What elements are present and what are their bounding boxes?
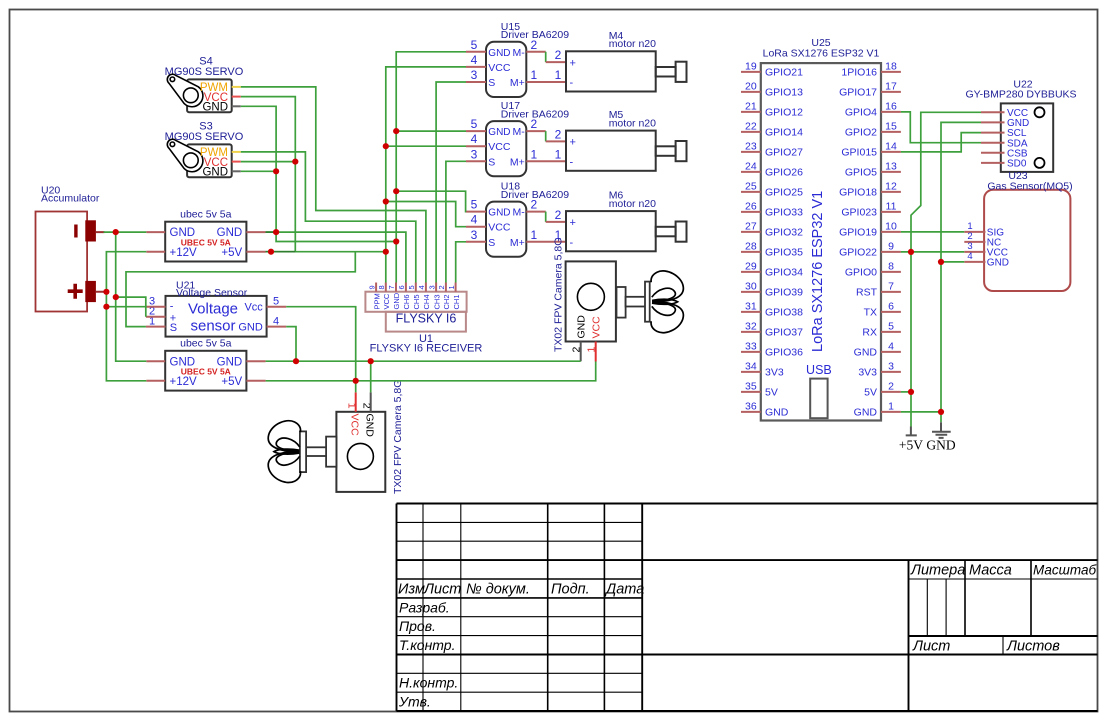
svg-text:VCC: VCC <box>488 222 511 234</box>
svg-text:3V3: 3V3 <box>765 367 784 379</box>
svg-text:GPIO25: GPIO25 <box>765 187 803 199</box>
svg-text:-: - <box>570 157 574 169</box>
svg-text:GND: GND <box>488 48 510 59</box>
svg-text:3V3: 3V3 <box>858 367 877 379</box>
svg-text:Voltage: Voltage <box>188 301 238 318</box>
wire pin9 to U23 VCC <box>901 251 964 253</box>
wire U15 S to CH3 <box>436 82 466 283</box>
junction +12V vertical / vsensor minus wire <box>103 304 109 310</box>
junction acc-minus / GND vertical <box>113 229 119 235</box>
antenna right <box>617 287 626 318</box>
svg-text:-: - <box>170 301 174 313</box>
servo S4 <box>165 55 244 113</box>
junction GND vertical / U23 GND <box>938 259 944 265</box>
wire U17 S to CH2 <box>446 161 466 282</box>
svg-text:3: 3 <box>471 68 478 82</box>
svg-text:33: 33 <box>745 341 757 353</box>
svg-text:1: 1 <box>555 68 562 82</box>
svg-text:M-: M- <box>513 47 526 59</box>
svg-text:8: 8 <box>888 261 894 273</box>
svg-text:GND: GND <box>488 208 510 219</box>
svg-text:GPIO39: GPIO39 <box>765 287 803 299</box>
svg-text:LoRa SX1276 ESP32 V1: LoRa SX1276 ESP32 V1 <box>810 191 826 352</box>
svg-text:Лист: Лист <box>423 581 461 597</box>
svg-text:6: 6 <box>397 285 406 289</box>
svg-text:12: 12 <box>885 181 897 193</box>
junction GND rail / vsensor GND <box>293 358 299 364</box>
svg-text:22: 22 <box>745 121 757 133</box>
receiver U1 FLYSKY I6 <box>365 283 482 355</box>
svg-text:4: 4 <box>967 251 972 262</box>
svg-text:5: 5 <box>407 285 416 289</box>
svg-text:3: 3 <box>888 361 894 373</box>
U25 pins <box>741 72 901 412</box>
svg-text:9: 9 <box>888 241 894 253</box>
svg-text:5: 5 <box>888 321 894 333</box>
receiver pin numbers <box>367 285 456 289</box>
svg-text:Литера: Литера <box>910 563 965 579</box>
svg-text:4: 4 <box>888 341 894 353</box>
junction +5V vertical / 5V pin2 <box>908 389 914 395</box>
wire U17 VCC <box>386 145 466 147</box>
svg-text:1: 1 <box>530 68 537 82</box>
svg-text:+12V: +12V <box>170 376 198 388</box>
wire vsensor minus <box>106 306 145 308</box>
svg-text:13: 13 <box>885 161 897 173</box>
junction servo GND vertical / ubec1 GND line <box>273 229 279 235</box>
svg-text:Масса: Масса <box>969 563 1012 579</box>
wire +5V vertical <box>911 112 981 426</box>
svg-text:GND: GND <box>854 407 878 419</box>
svg-text:CH5: CH5 <box>412 294 421 309</box>
svg-text:4: 4 <box>417 285 426 289</box>
wire +12V: ubec1 to acc to ubec2 <box>106 252 146 381</box>
svg-text:TX02 FPV Camera 5,8G: TX02 FPV Camera 5,8G <box>392 380 404 494</box>
svg-text:Утв.: Утв. <box>398 694 431 710</box>
wire U18 GND jog <box>396 191 466 211</box>
svg-text:CH6: CH6 <box>402 294 411 309</box>
TITLE BLOCK <box>397 504 1098 712</box>
svg-text:2: 2 <box>888 381 894 393</box>
svg-text:LoRa SX1276 ESP32 V1: LoRa SX1276 ESP32 V1 <box>763 48 880 60</box>
svg-text:3: 3 <box>471 147 478 161</box>
wire GND vertical acc to ubec2 <box>116 232 147 361</box>
motor M4 <box>566 30 687 92</box>
svg-text:3: 3 <box>427 285 436 289</box>
svg-text:motor n20: motor n20 <box>609 38 656 50</box>
svg-text:29: 29 <box>745 261 757 273</box>
wire S3 VCC <box>241 161 295 163</box>
svg-text:9: 9 <box>367 285 376 289</box>
svg-text:GND: GND <box>392 292 401 309</box>
svg-text:S: S <box>488 156 495 168</box>
servo S3 <box>165 120 244 178</box>
svg-text:sensor: sensor <box>190 318 235 335</box>
svg-text:GPIO21: GPIO21 <box>765 67 803 79</box>
svg-text:1: 1 <box>447 285 456 289</box>
svg-text:Листов: Листов <box>1006 638 1060 654</box>
svg-text:CH1: CH1 <box>452 294 461 309</box>
junction +5V vertical / GPIO22 wire <box>908 249 914 255</box>
svg-text:S: S <box>488 77 495 89</box>
svg-text:GPIO37: GPIO37 <box>765 327 803 339</box>
svg-text:17: 17 <box>885 81 897 93</box>
svg-text:VCC: VCC <box>488 62 511 74</box>
svg-text:GPIO38: GPIO38 <box>765 307 803 319</box>
svg-text:+: + <box>570 137 576 149</box>
U22 GY-BMP280 <box>965 78 1076 172</box>
svg-text:RX: RX <box>862 327 877 339</box>
svg-text:5V: 5V <box>765 387 778 399</box>
svg-text:1PIO16: 1PIO16 <box>841 67 877 79</box>
svg-text:GPIO0: GPIO0 <box>845 267 877 279</box>
driver U17 <box>466 100 569 176</box>
svg-text:VCC: VCC <box>488 141 511 153</box>
svg-text:GPIO4: GPIO4 <box>845 107 877 119</box>
svg-text:Изм: Изм <box>398 581 425 597</box>
svg-text:VCC: VCC <box>382 293 391 309</box>
svg-text:GPIO13: GPIO13 <box>765 87 803 99</box>
wire vsensor GND down <box>286 327 296 362</box>
junction GND trunk / U18 GND <box>393 188 399 194</box>
junction GND vertical / GND pin1 <box>938 409 944 415</box>
svg-text:GPI023: GPI023 <box>841 207 877 219</box>
wire S3 GND <box>241 170 276 172</box>
svg-text:1: 1 <box>530 228 537 242</box>
svg-text:GPIO35: GPIO35 <box>765 247 803 259</box>
svg-text:VCC: VCC <box>591 316 603 339</box>
svg-text:1: 1 <box>530 147 537 161</box>
svg-text:GPIO36: GPIO36 <box>765 347 803 359</box>
svg-text:GND: GND <box>202 102 228 114</box>
svg-text:RST: RST <box>856 287 878 299</box>
motor M5 <box>566 109 687 171</box>
svg-text:GPIO32: GPIO32 <box>765 227 803 239</box>
svg-text:GND: GND <box>364 414 376 438</box>
svg-text:4: 4 <box>471 53 478 67</box>
svg-text:21: 21 <box>745 101 757 113</box>
svg-text:CH3: CH3 <box>432 294 441 309</box>
svg-text:34: 34 <box>745 361 757 373</box>
left table thin rows <box>397 521 643 523</box>
svg-text:M+: M+ <box>510 77 525 89</box>
left table columns <box>422 504 424 712</box>
svg-text:GND: GND <box>238 321 263 333</box>
svg-text:10: 10 <box>885 221 897 233</box>
svg-text:GPIO19: GPIO19 <box>839 227 877 239</box>
wire ubec1 GND to CH6 <box>266 232 406 282</box>
U25 LoRa ESP32 <box>761 37 881 420</box>
wire U23 GND <box>941 261 964 263</box>
junction GND trunk / servo GND line <box>393 238 399 244</box>
svg-text:GPIO14: GPIO14 <box>765 127 803 139</box>
camera right (top) TX02 <box>553 238 684 362</box>
svg-text:TX: TX <box>864 307 877 319</box>
svg-text:1: 1 <box>888 401 894 413</box>
wire acc minus to ubec1 GND <box>104 231 147 233</box>
svg-text:M-: M- <box>513 126 526 138</box>
svg-text:+12V: +12V <box>170 247 198 259</box>
voltage sensor U21 <box>146 279 286 336</box>
ubec2 pin stubs <box>146 361 265 381</box>
junction VCC trunk / +5V line <box>383 249 389 255</box>
vsensor pin stubs <box>146 307 286 327</box>
svg-text:M+: M+ <box>510 156 525 168</box>
wire pin14 to SCL <box>901 133 981 152</box>
svg-text:motor n20: motor n20 <box>609 117 656 129</box>
svg-text:+5V: +5V <box>899 438 923 453</box>
svg-text:Gas Sensor(MQ5): Gas Sensor(MQ5) <box>987 180 1072 192</box>
svg-text:2: 2 <box>530 38 537 52</box>
svg-text:№ докум.: № докум. <box>466 581 530 597</box>
svg-text:2: 2 <box>437 285 446 289</box>
svg-text:GPIO18: GPIO18 <box>839 187 877 199</box>
svg-text:32: 32 <box>745 321 757 333</box>
svg-text:GPIO12: GPIO12 <box>765 107 803 119</box>
wire overlap shades <box>266 251 296 253</box>
svg-text:ubec 5v 5a: ubec 5v 5a <box>180 208 232 220</box>
svg-text:motor n20: motor n20 <box>609 198 656 210</box>
svg-text:GND: GND <box>926 438 955 453</box>
wire S4 PWM to CH4 <box>241 87 426 283</box>
wire left camera GND <box>370 361 372 392</box>
svg-text:14: 14 <box>885 141 897 153</box>
svg-text:GPIO5: GPIO5 <box>845 167 877 179</box>
svg-text:2: 2 <box>530 117 537 131</box>
svg-text:6: 6 <box>888 301 894 313</box>
wire ubec1 +5V line <box>266 251 386 253</box>
litera/massa/masshtab section <box>909 578 1098 580</box>
svg-text:5: 5 <box>471 38 478 52</box>
wire pin16 to SDA <box>901 112 981 143</box>
junction S3 GND / servo GND vertical <box>273 168 279 174</box>
wire pin2 5V <box>901 391 911 393</box>
svg-text:M-: M- <box>513 207 526 219</box>
svg-text:5: 5 <box>471 117 478 131</box>
svg-text:+5V: +5V <box>221 247 242 259</box>
U23 gas sensor MQ5 <box>964 170 1072 291</box>
svg-text:-: - <box>570 237 574 249</box>
junction acc-plus stub / +12V vertical <box>103 289 109 295</box>
GND power symbol <box>926 422 955 452</box>
svg-text:Voltage Sensor: Voltage Sensor <box>176 287 248 299</box>
antenna left <box>326 437 336 467</box>
junction ubec1 +5V line <box>268 249 274 255</box>
svg-text:Accumulator: Accumulator <box>41 193 100 205</box>
wire VCC trunk <box>386 67 466 283</box>
junction GND vertical / vsensor plus wire <box>113 294 119 300</box>
svg-text:19: 19 <box>745 61 757 73</box>
svg-text:GND: GND <box>765 407 789 419</box>
svg-text:FLYSKY I6: FLYSKY I6 <box>396 311 457 325</box>
svg-text:Подп.: Подп. <box>551 581 590 597</box>
svg-text:CH2: CH2 <box>442 294 451 309</box>
wire U18 VCC jog <box>386 202 466 227</box>
wire vsensor Vcc down to camera <box>286 307 356 393</box>
svg-text:35: 35 <box>745 381 757 393</box>
svg-text:GND: GND <box>576 315 588 339</box>
USB connector <box>810 379 827 419</box>
wire S3 PWM to CH5 <box>241 152 416 283</box>
svg-text:GPIO34: GPIO34 <box>765 267 803 279</box>
junction VCC rail / camera VCC vertical <box>353 378 359 384</box>
svg-text:31: 31 <box>745 301 757 313</box>
receiver pin stubs <box>376 283 456 292</box>
svg-text:16: 16 <box>885 101 897 113</box>
svg-text:27: 27 <box>745 221 757 233</box>
wire vsensor plus jog <box>116 297 146 317</box>
svg-text:SD0: SD0 <box>1007 159 1027 170</box>
camera left (bottom) TX02 <box>268 380 404 494</box>
receiver pin names <box>372 292 461 309</box>
wire servo VCC vertical <box>241 97 295 252</box>
svg-text:20: 20 <box>745 81 757 93</box>
svg-text:4: 4 <box>471 132 478 146</box>
svg-text:28: 28 <box>745 241 757 253</box>
wire GND trunk <box>396 52 466 283</box>
svg-text:GND: GND <box>488 127 510 138</box>
svg-text:25: 25 <box>745 181 757 193</box>
driver U15 <box>466 21 569 97</box>
accumulator U20 <box>36 184 107 311</box>
wire pin10 to SIG <box>901 231 964 233</box>
svg-text:CH4: CH4 <box>422 294 431 309</box>
svg-text:26: 26 <box>745 201 757 213</box>
svg-text:7: 7 <box>387 285 396 289</box>
svg-text:-: - <box>570 77 574 89</box>
svg-text:11: 11 <box>886 201 897 213</box>
svg-text:GPIO22: GPIO22 <box>839 247 877 259</box>
svg-text:GPIO26: GPIO26 <box>765 167 803 179</box>
svg-text:23: 23 <box>745 141 757 153</box>
svg-text:3: 3 <box>471 228 478 242</box>
svg-text:2: 2 <box>555 48 562 62</box>
svg-text:S: S <box>488 237 495 249</box>
svg-text:8: 8 <box>377 285 386 289</box>
svg-text:PPM: PPM <box>372 293 381 309</box>
svg-text:FLYSKY I6 RECEIVER: FLYSKY I6 RECEIVER <box>370 343 483 355</box>
ubec1 pin stubs <box>146 232 265 252</box>
junction GND rail / left camera GND <box>368 358 374 364</box>
svg-text:Лист: Лист <box>912 638 950 654</box>
wire GND rail <box>266 360 581 362</box>
svg-text:GPI015: GPI015 <box>841 147 877 159</box>
svg-text:Vcc: Vcc <box>244 302 263 314</box>
svg-text:ubec 5v 5a: ubec 5v 5a <box>180 338 232 350</box>
ubec 5v 5a module (bottom) <box>146 338 265 391</box>
svg-text:GND: GND <box>987 258 1009 269</box>
svg-text:+5V: +5V <box>221 376 242 388</box>
svg-text:Пров.: Пров. <box>399 618 436 634</box>
wire pin1 GND <box>901 411 941 413</box>
wire servo GND vertical <box>241 106 396 241</box>
svg-text:7: 7 <box>888 281 894 293</box>
driver U18 <box>466 181 569 257</box>
svg-text:24: 24 <box>745 161 757 173</box>
junction VCC trunk / U17 VCC <box>383 143 389 149</box>
wire U17 GND <box>396 130 466 132</box>
svg-text:GY-BMP280 DYBBUKS: GY-BMP280 DYBBUKS <box>965 89 1076 101</box>
wire vsensor S <box>126 252 355 327</box>
+5V power symbol <box>899 427 923 453</box>
svg-text:GND: GND <box>854 347 878 359</box>
svg-text:4: 4 <box>471 213 478 227</box>
svg-text:Т.контр.: Т.контр. <box>399 637 455 653</box>
svg-text:Н.контр.: Н.контр. <box>399 675 458 691</box>
svg-text:TX02 FPV Camera 5,8G: TX02 FPV Camera 5,8G <box>553 238 565 352</box>
junction VCC trunk / U18 VCC <box>383 198 389 204</box>
svg-text:15: 15 <box>885 121 897 133</box>
svg-text:GPIO33: GPIO33 <box>765 207 803 219</box>
vsensor pin numbers <box>149 296 279 328</box>
svg-text:2: 2 <box>530 198 537 212</box>
svg-text:VCC: VCC <box>348 414 360 437</box>
svg-text:36: 36 <box>745 401 757 413</box>
title block outer thick lines <box>397 503 1098 505</box>
svg-text:S: S <box>170 322 177 334</box>
svg-text:2: 2 <box>555 127 562 141</box>
junction GND trunk / U17 GND <box>393 128 399 134</box>
svg-text:Масштаб: Масштаб <box>1033 563 1096 578</box>
svg-text:GPIO2: GPIO2 <box>845 127 877 139</box>
ubec 5v 5a module (top) <box>146 208 265 261</box>
svg-text:GPIO27: GPIO27 <box>765 147 803 159</box>
svg-text:18: 18 <box>885 61 897 73</box>
wire GND vertical right <box>941 122 981 422</box>
svg-text:5: 5 <box>471 198 478 212</box>
svg-text:1: 1 <box>555 147 562 161</box>
svg-text:M+: M+ <box>510 237 525 249</box>
svg-text:+: + <box>570 57 576 69</box>
svg-text:30: 30 <box>745 281 757 293</box>
svg-text:GPIO17: GPIO17 <box>839 87 877 99</box>
svg-text:2: 2 <box>555 208 562 222</box>
svg-text:+: + <box>570 217 576 229</box>
svg-text:Разраб.: Разраб. <box>399 599 450 615</box>
wire VCC rail <box>266 362 596 381</box>
svg-text:Дата: Дата <box>604 581 644 597</box>
svg-text:5V: 5V <box>864 387 877 399</box>
svg-text:USB: USB <box>806 363 832 377</box>
junction S3 VCC / servo VCC vertical <box>292 159 298 165</box>
svg-text:GND: GND <box>202 167 228 179</box>
motor M6 <box>566 190 687 252</box>
wire U18 S to CH1 <box>456 242 466 283</box>
